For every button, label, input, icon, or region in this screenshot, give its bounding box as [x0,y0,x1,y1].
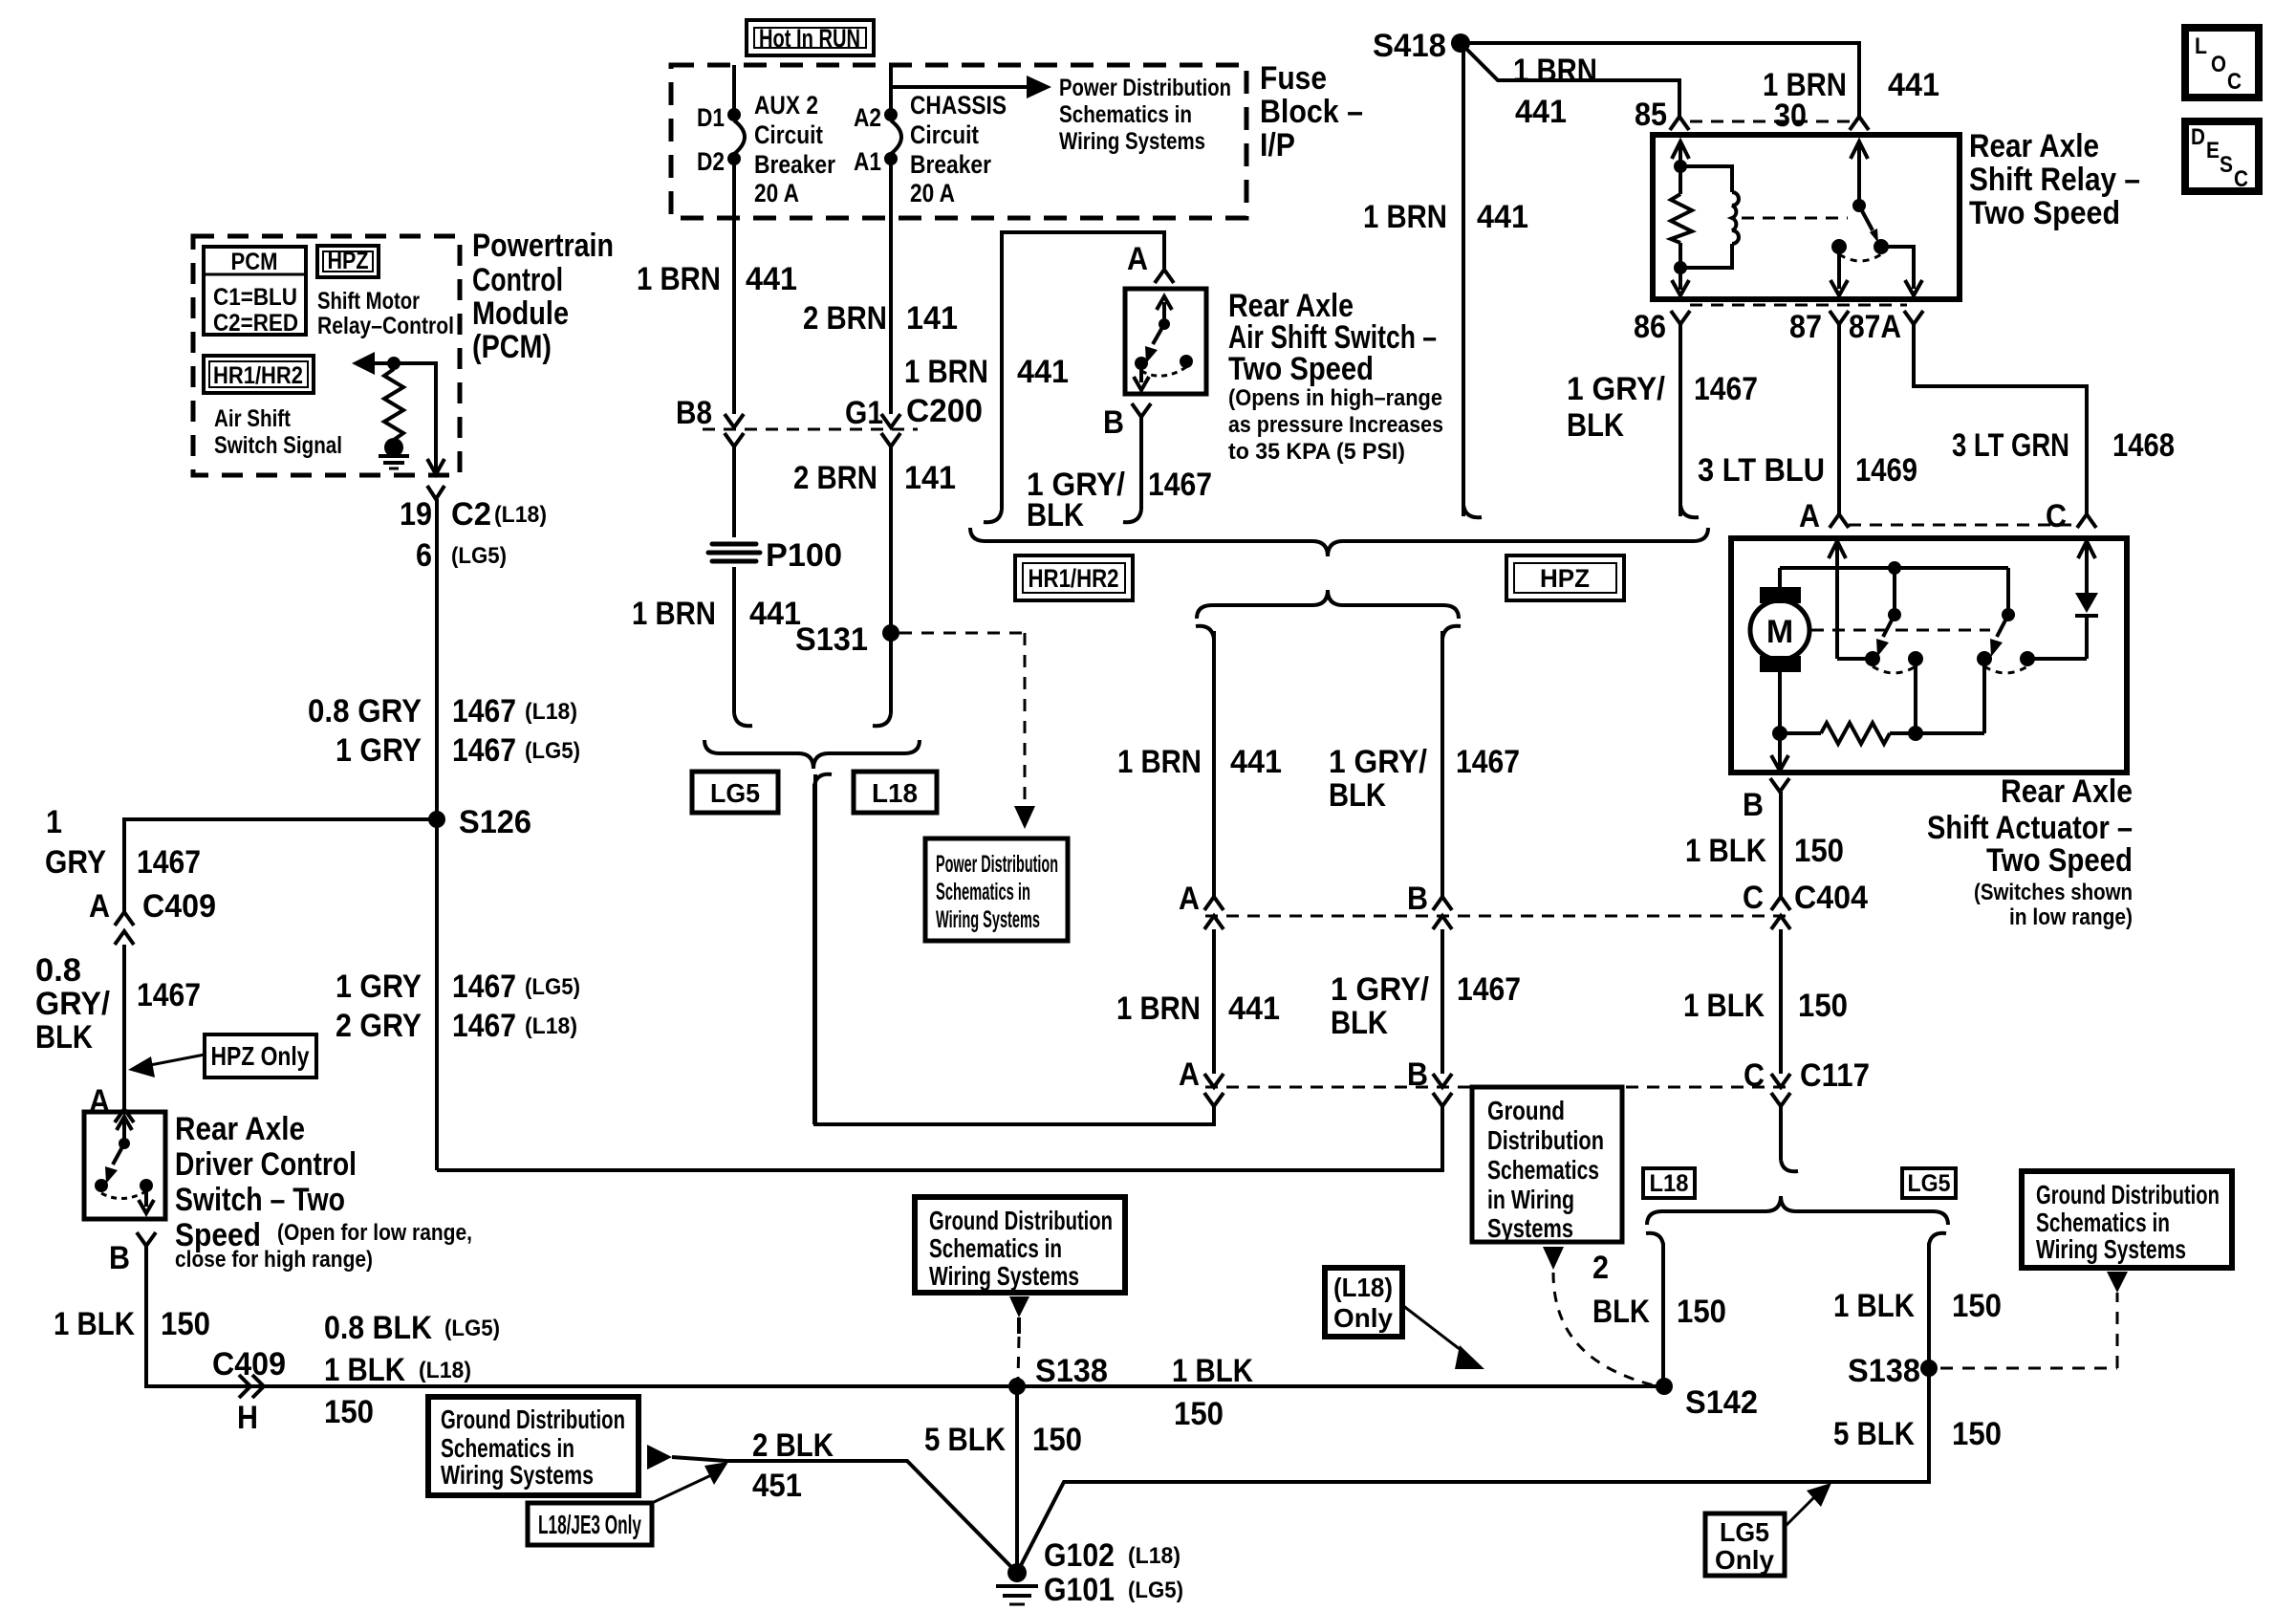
splice S126 [428,804,531,840]
wire: PCM C2 down to S126 (GRY 1467) [308,499,580,1170]
svg-text:I/P: I/P [1260,127,1295,163]
svg-text:1 BLK: 1 BLK [54,1306,135,1342]
svg-text:1 BRN: 1 BRN [632,596,716,632]
wire: switch B down 1 GRY/BLK 1467 [1027,403,1212,533]
wire: 2 BLK 150 from brace to S142 [1592,1233,1726,1386]
svg-text:G102: G102 [1044,1537,1115,1574]
svg-text:GRY/: GRY/ [35,986,111,1022]
svg-text:441: 441 [1017,354,1069,390]
svg-text:Ground Distribution: Ground Distribution [2036,1180,2220,1209]
svg-text:C404: C404 [1794,880,1868,916]
switch label [1228,288,1443,465]
svg-text:L18: L18 [872,778,918,808]
svg-text:close for high range): close for high range) [175,1247,373,1273]
splice S142 [1656,1378,1758,1421]
wire: relay 87 down 3 LT BLU 1469 to actuator A [1698,324,1917,534]
brace ground pair split [1647,1196,1948,1225]
svg-text:D: D [2191,124,2205,150]
note box LG5 Only [1705,1483,1831,1576]
svg-text:20 A: 20 A [910,179,955,207]
svg-text:S142: S142 [1685,1384,1758,1421]
svg-text:Distribution: Distribution [1487,1125,1604,1155]
svg-text:C: C [2046,498,2067,534]
svg-text:LG5: LG5 [1908,1170,1951,1197]
reference box Ground Distribution (middle) [915,1197,1125,1293]
svg-text:C200: C200 [906,393,983,429]
svg-text:Shift Motor: Shift Motor [317,288,420,315]
svg-text:A1: A1 [854,147,881,176]
wire: S418 to relay pin 85 (1 BRN 441) [1461,43,1807,134]
svg-text:(Opens in high–range: (Opens in high–range [1228,385,1442,411]
svg-text:C1=BLU: C1=BLU [213,284,297,311]
actuator diode (entry C) [2075,541,2098,659]
svg-text:(L18): (L18) [525,1013,577,1039]
svg-text:Module: Module [472,295,569,332]
svg-text:441: 441 [1477,199,1528,235]
wire: B return from C117 to PCM wire [437,1106,1442,1170]
svg-text:1467: 1467 [452,732,516,769]
svg-text:(Open for low range,: (Open for low range, [277,1220,472,1246]
connector line into relay (85 / 30) [1670,117,1869,130]
svg-text:Schematics in: Schematics in [929,1233,1062,1263]
svg-text:Rear Axle: Rear Axle [2001,773,2133,810]
svg-text:Circuit: Circuit [910,120,979,149]
svg-text:87A: 87A [1849,309,1901,345]
svg-text:150: 150 [1794,833,1844,869]
svg-text:30: 30 [1774,98,1807,134]
svg-text:Powertrain: Powertrain [472,228,614,264]
svg-text:BLK: BLK [1329,777,1386,814]
svg-text:Control: Control [472,262,563,298]
svg-text:B: B [109,1240,130,1276]
svg-text:C: C [2227,69,2242,95]
svg-text:C2: C2 [451,496,491,533]
svg-text:C: C [2234,166,2248,192]
relay switch (30 / 87 / 87A) [1830,142,1922,295]
svg-text:(L18): (L18) [419,1358,471,1383]
svg-text:0.8 GRY: 0.8 GRY [308,693,422,729]
svg-text:1 BRN: 1 BRN [904,354,988,390]
svg-text:P100: P100 [766,537,842,574]
svg-text:0.8: 0.8 [35,952,81,989]
connector C404 dashed line [1205,897,1793,929]
reference box Ground Distribution (center, 5 lines) [1472,1087,1622,1243]
svg-text:Two Speed: Two Speed [1228,351,1374,387]
wire: fuse CHASSIS output down (2 BRN 141) [793,218,958,726]
svg-text:1 BLK: 1 BLK [1172,1353,1253,1389]
svg-text:S: S [2220,152,2233,178]
svg-text:5 BLK: 5 BLK [1833,1416,1915,1452]
net label LG5 (bottom) [1902,1168,1956,1198]
module PCM dashed outline [193,228,614,475]
svg-text:A: A [89,888,110,925]
wire: S138 down to ground [1007,1386,1027,1582]
connector C409 (H) on ground wire [212,1310,500,1436]
svg-text:3 LT BLU: 3 LT BLU [1698,452,1825,489]
svg-text:Power Distribution: Power Distribution [936,851,1058,878]
svg-text:(L18): (L18) [1333,1273,1393,1302]
actuator entry A [1829,541,1866,659]
svg-text:Switch Signal: Switch Signal [214,432,342,459]
connector C409 (A) [89,888,216,945]
splice S138 (right) [1833,1353,2002,1452]
svg-text:Wiring Systems: Wiring Systems [1059,128,1205,155]
connector C2 labels [400,496,547,574]
svg-text:A: A [1127,241,1148,277]
svg-text:1467: 1467 [1456,744,1520,780]
dashed reference into S138 [1009,1296,1029,1381]
circuit breaker AUX 2 (pins D1 D2) [697,65,835,218]
net label HR1/HR2 [1015,555,1133,600]
svg-text:O: O [2211,52,2226,77]
svg-text:HR1/HR2: HR1/HR2 [213,362,303,389]
wire: S126 left to C409 (1 GRY 1467) [45,804,437,912]
actuator exit B [1743,733,1789,823]
svg-text:Block –: Block – [1260,94,1363,130]
driver switch label [175,1111,472,1273]
svg-text:A: A [1179,1056,1200,1093]
svg-text:B8: B8 [676,395,712,431]
actuator inner top bus [1780,561,2008,575]
fuse block header box Hot In RUN [747,20,874,55]
svg-text:(LG5): (LG5) [525,974,580,1000]
svg-text:Breaker: Breaker [910,150,991,179]
svg-text:Ground Distribution: Ground Distribution [441,1404,625,1434]
PCM connector id box [204,247,306,337]
svg-text:150: 150 [1798,988,1848,1024]
ground symbol G102/G101 [996,1537,1183,1608]
svg-text:1468: 1468 [2112,427,2175,464]
svg-text:B: B [1407,881,1428,917]
svg-text:Hot In RUN: Hot In RUN [759,24,860,53]
svg-text:Rear Axle: Rear Axle [175,1111,305,1147]
relay coil [1680,166,1848,268]
dashed reference from S138 right [1940,1272,2128,1368]
svg-text:LG5: LG5 [1720,1517,1769,1547]
svg-text:(L18): (L18) [525,699,577,725]
svg-text:HPZ: HPZ [1540,564,1590,593]
svg-text:L18: L18 [1650,1170,1689,1197]
svg-text:1 BLK: 1 BLK [1685,833,1766,869]
actuator mechanical link dashed [1811,629,1990,632]
connector C200 dashed line [703,393,983,431]
svg-text:451: 451 [752,1468,802,1504]
svg-text:Only: Only [1333,1303,1393,1333]
svg-text:1 BRN: 1 BRN [1363,199,1447,235]
svg-text:(LG5): (LG5) [444,1316,500,1341]
actuator switch 2 [1977,568,2087,673]
svg-text:1 GRY: 1 GRY [336,732,422,769]
svg-text:B: B [1103,404,1124,441]
wire: C409 to driver switch A (0.8 GRY/BLK 1467) [35,945,201,1122]
svg-text:1 BRN: 1 BRN [1513,53,1597,89]
wire: 2 BLK 451 to ground [672,1427,1017,1573]
wire: S418 to relay pin 30 (1 BRN 441) [1461,43,1939,117]
brace HR1/HR2-HPZ group [970,528,1708,556]
wire: 1 GRY/BLK 1467 lower (C404 to C117) [1331,929,1521,1106]
svg-text:C2=RED: C2=RED [213,310,298,337]
svg-text:Shift Relay –: Shift Relay – [1969,162,2140,198]
svg-text:Wiring Systems: Wiring Systems [929,1261,1079,1291]
svg-text:BLK: BLK [1592,1294,1650,1330]
brace LG5/L18 pair [704,740,920,1124]
svg-text:1 GRY/: 1 GRY/ [1567,371,1666,407]
svg-text:Schematics in: Schematics in [441,1433,574,1463]
actuator motor M [1750,568,1809,741]
svg-text:CHASSIS: CHASSIS [910,91,1007,120]
svg-text:Wiring Systems: Wiring Systems [2036,1234,2186,1264]
svg-text:441: 441 [746,261,797,297]
wire: 1 BLK 150 from brace to S138 (right) [1833,1233,2002,1368]
svg-text:E: E [2206,138,2220,163]
svg-text:AUX 2: AUX 2 [754,91,818,120]
wire: relay 86 down 1 GRY/BLK 1467 [1567,324,1758,517]
actuator switch 1 [1865,568,1923,741]
wire: C117 down to ground brace [1781,1106,1798,1171]
svg-text:S138: S138 [1848,1353,1920,1389]
switch Rear Axle Air Shift Switch - Two Speed [1125,289,1206,394]
splice S131 [795,621,899,658]
svg-text:2: 2 [1592,1250,1609,1286]
svg-text:Wiring Systems: Wiring Systems [441,1460,594,1490]
svg-text:Schematics in: Schematics in [936,879,1030,905]
svg-text:1 BLK: 1 BLK [1683,988,1765,1024]
svg-text:BLK: BLK [1567,407,1624,444]
switch Rear Axle Driver Control Switch - Two Speed [84,1112,165,1219]
relay resistor (85-86 branch) [1671,142,1692,295]
page tab LOC [2185,28,2259,98]
svg-text:2 BRN: 2 BRN [803,300,887,337]
svg-text:GRY: GRY [45,844,106,881]
label Fuse Block - I/P [1260,60,1363,163]
svg-text:150: 150 [1032,1422,1082,1458]
wire: 1 GRY/BLK 1467 middle (to C404 B) [1329,626,1520,929]
svg-text:1467: 1467 [1457,971,1521,1008]
svg-text:441: 441 [1888,67,1939,103]
svg-text:A: A [1799,498,1820,534]
svg-text:C409: C409 [142,888,216,925]
svg-text:Switch – Two: Switch – Two [175,1182,345,1218]
actuator Rear Axle Shift Actuator - Two Speed [1731,538,2133,930]
svg-text:150: 150 [1677,1294,1726,1330]
svg-text:Circuit: Circuit [754,120,823,149]
svg-text:150: 150 [1952,1416,2002,1452]
svg-text:LG5: LG5 [710,778,760,808]
svg-text:G1: G1 [845,395,883,431]
svg-text:(Switches shown: (Switches shown [1974,880,2133,905]
reference box Ground Distribution (bottom left) [428,1397,672,1495]
svg-text:B: B [1407,1056,1428,1093]
air shift switch wire A (1 BRN 441) [904,232,1174,522]
svg-text:6: 6 [416,537,432,574]
svg-text:2 GRY: 2 GRY [336,1008,422,1044]
dashed reference curve into S142 [1543,1247,1654,1385]
svg-text:87: 87 [1789,309,1822,345]
svg-text:D1: D1 [697,103,725,132]
svg-text:1 GRY/: 1 GRY/ [1331,971,1430,1008]
net label LG5 [692,772,778,813]
svg-text:(L18): (L18) [1128,1543,1180,1569]
svg-text:Wiring Systems: Wiring Systems [936,906,1040,933]
svg-text:1 BRN: 1 BRN [1116,991,1201,1027]
reference box Ground Distribution (bottom right) [2022,1171,2232,1268]
svg-text:1 BRN: 1 BRN [1117,744,1202,780]
wire: 5 BLK 150 ground to S138 right [1017,1368,1929,1573]
net label HR1/HR2 (in PCM) [204,356,342,459]
svg-text:441: 441 [1515,94,1567,130]
svg-text:1467: 1467 [452,1008,516,1044]
svg-text:S126: S126 [459,804,531,840]
svg-text:BLK: BLK [1331,1005,1388,1041]
connector C117 dashed line [1205,1074,1793,1106]
svg-text:3 LT GRN: 3 LT GRN [1952,427,2069,464]
svg-text:HR1/HR2: HR1/HR2 [1029,564,1119,593]
svg-text:150: 150 [1174,1396,1224,1432]
svg-text:141: 141 [904,460,956,496]
svg-text:1467: 1467 [137,977,201,1013]
svg-text:Relay–Control: Relay–Control [317,313,454,339]
net label L18 (bottom) [1643,1168,1695,1198]
page tab DESC [2185,121,2259,192]
svg-text:150: 150 [161,1306,210,1342]
dashed reference from S131 to power distribution box [899,633,1035,829]
svg-text:20 A: 20 A [754,179,799,207]
svg-text:2 BRN: 2 BRN [793,460,877,496]
svg-text:85: 85 [1635,97,1667,133]
svg-text:441: 441 [1230,744,1282,780]
svg-text:1469: 1469 [1855,452,1917,489]
svg-text:Systems: Systems [1487,1213,1573,1243]
ground symbol (PCM) [379,456,409,468]
svg-text:1 GRY: 1 GRY [336,969,422,1005]
note box (L18) Only [1325,1268,1484,1369]
svg-text:Schematics in: Schematics in [1059,101,1192,128]
relay label [1969,128,2140,231]
svg-text:C409: C409 [212,1346,286,1382]
wire: actuator B down 1 BLK 150 to C404 [1685,792,1868,916]
wire: relay 87A down right 3 LT GRN 1468 to actuator C [1914,324,2175,534]
svg-text:5 BLK: 5 BLK [924,1422,1006,1458]
splice S138 [924,1353,1253,1458]
reference box Power Distribution Schematics in Wiring Systems [925,838,1068,941]
svg-text:Power Distribution: Power Distribution [1059,75,1231,101]
svg-text:Fuse: Fuse [1260,60,1327,97]
svg-text:1467: 1467 [1148,467,1212,503]
svg-text:Breaker: Breaker [754,150,835,179]
PCM internal arrow and wire to C2 [352,352,444,499]
svg-text:A: A [1179,881,1200,917]
svg-text:Schematics: Schematics [1487,1155,1599,1185]
svg-text:as pressure Increases: as pressure Increases [1228,412,1443,438]
net label HPZ (in PCM) [317,246,454,339]
svg-text:1 BRN: 1 BRN [637,261,721,297]
svg-text:1467: 1467 [137,844,201,881]
wire: 1 BLK 150 between C404 and C117 [1683,929,1870,1094]
svg-text:G101: G101 [1044,1572,1115,1608]
svg-text:2 BLK: 2 BLK [752,1427,834,1464]
svg-text:S138: S138 [1035,1353,1108,1389]
svg-text:Driver Control: Driver Control [175,1146,357,1183]
wire: S418 down 1 BRN 441 [1363,43,1528,517]
svg-text:1467: 1467 [452,969,516,1005]
svg-text:D2: D2 [697,147,725,176]
svg-text:0.8 BLK: 0.8 BLK [324,1310,432,1346]
svg-text:Only: Only [1715,1545,1774,1575]
brace middle pair split [1197,590,1459,619]
svg-text:C117: C117 [1800,1057,1870,1094]
svg-text:(L18): (L18) [494,502,547,528]
svg-text:1: 1 [46,804,62,840]
svg-text:PCM: PCM [231,249,278,275]
wire: branch from A2 to power distribution reference [891,75,1231,155]
svg-text:to 35 KPA (5 PSI): to 35 KPA (5 PSI) [1228,439,1405,465]
svg-text:(LG5): (LG5) [451,543,507,569]
svg-text:S131: S131 [795,621,868,658]
svg-text:A2: A2 [854,103,881,132]
wire: 1 BRN 441 lower (C404 to C117) [1116,929,1280,1106]
connector line into actuator (A / C) [1849,524,2077,527]
svg-text:(PCM): (PCM) [472,329,552,365]
svg-text:Rear Axle: Rear Axle [1969,128,2099,164]
svg-text:19: 19 [400,496,432,533]
fuse block I/P dashed outline [671,65,1246,218]
svg-text:in Wiring: in Wiring [1487,1185,1574,1214]
net label L18 [854,772,937,813]
splice S418 [1373,28,1470,64]
svg-text:BLK: BLK [1027,497,1084,533]
svg-text:BLK: BLK [35,1019,93,1056]
note box L18/JE3 Only [528,1462,728,1545]
svg-text:Air Shift: Air Shift [214,405,292,432]
svg-text:86: 86 [1634,309,1666,345]
wire: driver switch B down 1 BLK 150 [54,1232,1664,1386]
svg-text:1 BLK: 1 BLK [324,1352,405,1388]
svg-text:C: C [1743,880,1764,916]
wire: 1 BRN 441 middle (to C404 A) [1117,626,1282,929]
wire: A return from C117 to LG5/L18 brace [815,774,1214,1124]
svg-text:M: M [1766,614,1793,650]
svg-text:Ground Distribution: Ground Distribution [929,1206,1113,1235]
svg-text:HPZ Only: HPZ Only [211,1041,310,1071]
svg-text:1467: 1467 [1694,371,1758,407]
svg-text:(LG5): (LG5) [1128,1578,1183,1603]
svg-text:150: 150 [1952,1288,2002,1324]
svg-text:Two Speed: Two Speed [1969,195,2120,231]
svg-text:L: L [2195,33,2207,59]
svg-text:141: 141 [906,300,958,337]
svg-text:441: 441 [1228,991,1280,1027]
relay Rear Axle Shift Relay - Two Speed [1653,135,1960,299]
wire: fuse AUX2 output down (1 BRN 441, P100) [632,218,842,726]
PCM internal resistor [384,357,403,457]
connector line below relay (86 / 87 / 87A) [1634,305,1923,345]
circuit breaker CHASSIS (pins A2 A1) [854,65,1007,218]
svg-text:S418: S418 [1373,28,1446,64]
actuator resistor [1780,659,1984,744]
svg-text:in low range): in low range) [2009,904,2133,930]
svg-text:HPZ: HPZ [328,248,369,274]
svg-text:Schematics in: Schematics in [2036,1208,2170,1237]
svg-text:Ground: Ground [1487,1096,1565,1125]
svg-text:Shift Actuator –: Shift Actuator – [1927,810,2133,846]
svg-text:441: 441 [749,596,801,632]
svg-text:(LG5): (LG5) [525,738,580,764]
svg-text:Two Speed: Two Speed [1986,842,2133,879]
svg-text:150: 150 [324,1394,374,1430]
svg-text:1467: 1467 [452,693,516,729]
svg-text:H: H [237,1400,258,1436]
net label HPZ [1506,555,1624,600]
